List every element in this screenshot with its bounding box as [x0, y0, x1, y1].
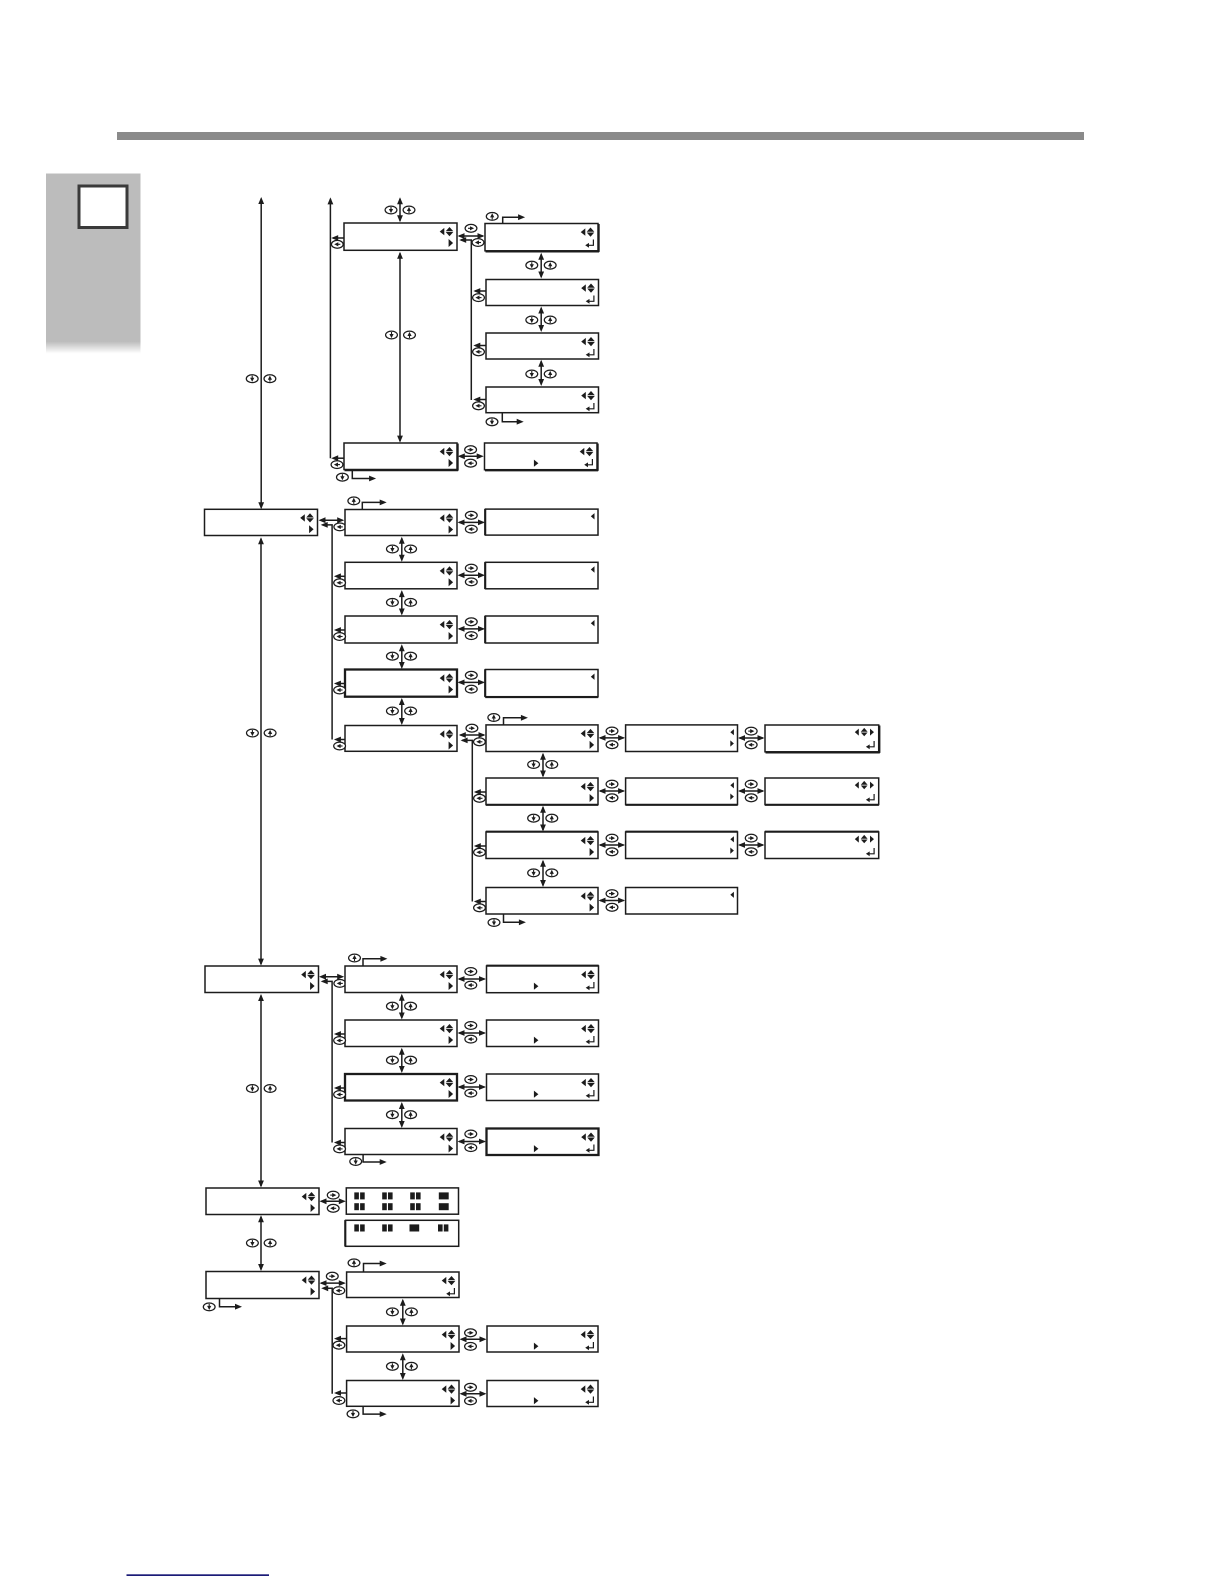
- button left: [465, 1343, 477, 1351]
- button left: [334, 523, 346, 531]
- wire scroll arrow H2C-H2D: [399, 1102, 405, 1128]
- screen E3-1: [486, 725, 598, 752]
- button down: [387, 1362, 399, 1370]
- button left: [334, 1145, 346, 1153]
- screen H2C: [345, 1074, 457, 1101]
- wire back arrow from E3-2: [474, 789, 486, 795]
- screen E3-3: [486, 832, 598, 859]
- screen R2: [347, 1326, 459, 1352]
- wire arrow between H2D and I3D: [458, 1139, 487, 1145]
- wire arrow between F4-1 and G5-1: [738, 735, 765, 741]
- button up: [404, 331, 416, 339]
- button down: [387, 652, 399, 660]
- wire arrow between C2E and E3-1: [459, 732, 486, 738]
- button right: [606, 727, 618, 735]
- screen I3C: [487, 1074, 599, 1101]
- button down: [528, 814, 540, 822]
- screen I3D: [487, 1129, 599, 1156]
- wire enter arrow above H2A: [363, 956, 387, 966]
- wire back arrow from R2: [334, 1336, 347, 1342]
- button down: [387, 1056, 399, 1064]
- wire main menu vertical scroll arrow: [258, 197, 264, 509]
- wire back arrow from H2C: [334, 1085, 345, 1091]
- button right: [745, 834, 757, 842]
- wire back arrow from B3: [473, 343, 486, 349]
- button up: [546, 814, 558, 822]
- button up: [405, 707, 417, 715]
- screen S2: [487, 1326, 598, 1352]
- button right: [465, 446, 477, 454]
- button down: [203, 1303, 215, 1311]
- screen P1 menu: [206, 1188, 319, 1215]
- button left: [745, 848, 757, 856]
- wire back arrow from C2B: [334, 573, 345, 579]
- button up: [546, 761, 558, 769]
- screen D3D: [485, 669, 598, 697]
- button left: [334, 1037, 346, 1045]
- button down: [387, 707, 399, 715]
- button left: [334, 579, 346, 587]
- screen R3: [347, 1381, 459, 1407]
- screen C2D: [345, 670, 457, 697]
- button left: [472, 239, 484, 247]
- wire back arrow from B2: [473, 288, 486, 294]
- screen C2A: [345, 510, 457, 536]
- wire enter arrow above C2A: [362, 500, 386, 510]
- wire arrow between C2C and D3C: [458, 626, 486, 632]
- wire back arrow from C2C: [334, 627, 345, 633]
- wire back arrow from screen A1: [331, 235, 344, 241]
- screen D3A: [485, 509, 598, 535]
- wire exit arrow below B4: [502, 413, 523, 425]
- button right: [465, 1383, 477, 1391]
- screen E3-4: [486, 888, 598, 915]
- wire arrow between H2C and I3C: [458, 1084, 487, 1090]
- screen B4: [486, 387, 599, 413]
- wire scroll arrow B1-B2: [538, 253, 544, 279]
- screen G5-2: [765, 778, 879, 805]
- wire back arrow from B4: [473, 397, 486, 403]
- button right: [466, 724, 478, 732]
- wire long scroll arrow A1-A2: [397, 252, 403, 443]
- button up: [488, 714, 500, 722]
- screen H2B: [345, 1020, 457, 1047]
- button left: [606, 741, 618, 749]
- button right: [745, 780, 757, 788]
- button up: [403, 206, 415, 214]
- wire scroll arrow C2B-C2C: [399, 590, 405, 615]
- screen I3A: [486, 966, 598, 993]
- wire scroll arrow H2B-H2C: [399, 1048, 405, 1073]
- screen B2: [486, 280, 599, 306]
- wire scroll arrow R2-R3: [400, 1353, 406, 1380]
- button left: [334, 686, 346, 694]
- wire arrow between A2 and B5: [458, 453, 484, 459]
- screen E3-2: [486, 778, 598, 805]
- button right: [606, 834, 618, 842]
- screen C2B: [345, 562, 457, 589]
- button up: [486, 213, 498, 221]
- screen I3B: [487, 1020, 599, 1047]
- wire scroll arrow B3-B4: [538, 360, 544, 386]
- button down: [526, 370, 538, 378]
- button up: [348, 1259, 360, 1267]
- left grey sidebar tab with fade: [46, 174, 141, 342]
- wire back arrow from H2D: [334, 1140, 345, 1146]
- wire exit arrow below A2: [352, 470, 376, 482]
- button up: [264, 375, 276, 383]
- button left: [465, 1035, 477, 1043]
- wire arrow between C2B and D3B: [458, 572, 486, 578]
- screen C2C: [345, 616, 457, 643]
- screen G5-1: [765, 725, 880, 753]
- button left: [474, 794, 486, 802]
- button up: [264, 1085, 276, 1093]
- button left: [465, 632, 477, 640]
- button left: [606, 794, 618, 802]
- button right: [465, 968, 477, 976]
- button right: [465, 618, 477, 626]
- wire menu scroll arrow M2-P1: [258, 994, 264, 1188]
- button left: [473, 294, 485, 302]
- screen B3: [486, 333, 599, 359]
- button left: [334, 1091, 346, 1099]
- screen T1 test pattern: [346, 1188, 458, 1214]
- button right: [606, 890, 618, 898]
- screen A1: [344, 223, 457, 250]
- button down: [386, 331, 398, 339]
- screen D3B: [485, 562, 598, 589]
- button up: [544, 261, 556, 269]
- wire exit arrow below H2D: [363, 1155, 387, 1165]
- wire arrow between C2D and D3D: [458, 680, 486, 686]
- button left: [333, 1341, 345, 1349]
- button right: [465, 1130, 477, 1138]
- button down: [387, 1111, 399, 1119]
- button down: [387, 1308, 399, 1316]
- wire back arrow from E3-4: [474, 899, 486, 905]
- screen B5: [485, 443, 599, 471]
- wire back arrow from C2E: [334, 737, 345, 743]
- wire menu scroll arrow P1-P2: [258, 1215, 264, 1271]
- wire back arrow from H2B: [334, 1031, 345, 1037]
- screen P2 menu: [206, 1272, 319, 1299]
- wire exit arrow below P2: [220, 1299, 243, 1310]
- button right: [465, 671, 477, 679]
- button up: [405, 1002, 417, 1010]
- screen M1 menu: [205, 509, 318, 535]
- wire scroll arrow E3-1/2: [540, 753, 546, 778]
- button right: [326, 1272, 338, 1280]
- button right: [465, 511, 477, 519]
- wire scroll arrow C2A-C2B: [399, 537, 405, 562]
- sidebar chapter square: [79, 186, 127, 228]
- wire arrow between E3-4 and F4-4: [599, 898, 626, 904]
- wire arrow between E3-3 and F4-3: [599, 842, 626, 848]
- wire scroll arrow B2-B3: [538, 307, 544, 333]
- wire scroll arrow E3-3/4: [540, 860, 546, 887]
- screen B1: [485, 224, 599, 252]
- button down: [526, 261, 538, 269]
- button down: [528, 761, 540, 769]
- button left: [465, 981, 477, 989]
- wire arrow between C2A and D3A: [458, 520, 486, 526]
- button left: [333, 1397, 345, 1405]
- button left: [474, 738, 486, 746]
- button left: [745, 741, 757, 749]
- button right: [606, 780, 618, 788]
- button up: [264, 1239, 276, 1247]
- button right: [327, 1191, 339, 1199]
- wire arrow between M1 and C2A: [319, 517, 345, 523]
- wire arrow between R3 and S3: [460, 1391, 487, 1397]
- button up: [348, 497, 360, 505]
- wire menu scroll arrow M1-M2: [258, 537, 264, 965]
- wire exit arrow below E3-4: [504, 914, 526, 925]
- button left: [465, 1144, 477, 1152]
- button down: [350, 1158, 362, 1166]
- wire return path from B2-B4 into A1: [459, 237, 471, 400]
- wire arrow between A1 and B1: [458, 233, 485, 239]
- button left: [465, 1397, 477, 1405]
- wire scroll arrow C2D-C2E: [399, 698, 405, 725]
- button left: [606, 903, 618, 911]
- wire return path from H2 rows into M2: [321, 979, 332, 1143]
- screen S3: [487, 1381, 598, 1407]
- button left: [331, 461, 343, 469]
- wire arrow between P2 and R1: [320, 1280, 346, 1286]
- wire scroll arrow C2C-C2D: [399, 644, 405, 669]
- wire return path from C2 rows into M1: [321, 522, 332, 740]
- button down: [246, 375, 258, 383]
- wire back arrow from R3: [334, 1390, 347, 1396]
- wire return line to top: [328, 197, 334, 458]
- screen A2: [344, 443, 458, 471]
- button down: [347, 1410, 359, 1418]
- button left: [465, 459, 477, 467]
- button right: [465, 224, 477, 232]
- wire return path from E3 rows into C2E: [461, 738, 473, 902]
- wire back arrow from screen A2: [331, 455, 344, 461]
- button left: [606, 848, 618, 856]
- screen H2D: [345, 1129, 457, 1155]
- wire scroll arrow H2A-H2B: [399, 994, 405, 1020]
- screen T2 test pattern: [345, 1220, 459, 1246]
- button up: [544, 316, 556, 324]
- button left: [745, 794, 757, 802]
- button down: [528, 869, 540, 877]
- button left: [465, 1089, 477, 1097]
- button left: [331, 240, 343, 248]
- button down: [488, 919, 500, 927]
- button left: [333, 1287, 345, 1295]
- button left: [474, 848, 486, 856]
- button right: [745, 727, 757, 735]
- button right: [465, 1076, 477, 1084]
- footer rule: [127, 1574, 270, 1576]
- wire arrow between M2 and H2A: [319, 974, 344, 980]
- wire back arrow from E3-3: [474, 843, 486, 849]
- button right: [465, 564, 477, 572]
- button left: [474, 904, 486, 912]
- button down: [387, 599, 399, 607]
- button up: [405, 1111, 417, 1119]
- button left: [473, 402, 485, 410]
- wire arrow between P1 and T1: [320, 1198, 346, 1204]
- button left: [473, 348, 485, 356]
- wire arrow between R2 and S2: [460, 1336, 487, 1342]
- screen F4-3: [625, 832, 737, 859]
- button down: [486, 418, 498, 426]
- button up: [546, 869, 558, 877]
- button down: [385, 206, 397, 214]
- button left: [334, 633, 346, 641]
- screen G5-3: [765, 832, 879, 859]
- wire scroll arrow R1-R2: [400, 1299, 406, 1326]
- button left: [465, 685, 477, 693]
- button down: [247, 1239, 259, 1247]
- wire back arrow from C2D: [334, 681, 345, 687]
- wire enter arrow above screen B1: [503, 214, 525, 223]
- wire exit arrow below R3: [363, 1406, 387, 1417]
- screen R1: [347, 1272, 459, 1298]
- button up: [264, 729, 276, 737]
- button down: [526, 316, 538, 324]
- button left: [334, 980, 346, 988]
- button left: [334, 742, 346, 750]
- button up: [405, 1056, 417, 1064]
- button down: [247, 729, 259, 737]
- screen C2E: [345, 726, 457, 752]
- button up: [406, 1308, 418, 1316]
- wire enter arrow above E3-1: [504, 715, 528, 725]
- button left: [327, 1204, 339, 1212]
- wire arrow between F4-2 and G5-2: [738, 788, 765, 794]
- button up: [405, 599, 417, 607]
- wire scroll arrow above screen A1: [397, 197, 403, 222]
- button up: [406, 1362, 418, 1370]
- button up: [544, 370, 556, 378]
- button down: [247, 1085, 259, 1093]
- top grey rule bar: [117, 132, 1084, 140]
- button down: [387, 1002, 399, 1010]
- button down: [387, 545, 399, 553]
- button left: [465, 578, 477, 586]
- wire arrow between E3-1 and F4-1: [599, 735, 626, 741]
- button left: [465, 525, 477, 533]
- wire arrow between E3-2 and F4-2: [599, 788, 626, 794]
- wire arrow between H2A and I3A: [458, 976, 487, 982]
- button down: [337, 473, 349, 481]
- wire scroll arrow E3-2/3: [540, 806, 546, 832]
- button right: [465, 1329, 477, 1337]
- button right: [465, 1022, 477, 1030]
- button up: [405, 652, 417, 660]
- wire arrow between H2B and I3B: [458, 1030, 487, 1036]
- screen F4-1: [626, 725, 738, 752]
- screen F4-4: [626, 888, 738, 915]
- screen H2A: [345, 966, 457, 993]
- wire arrow between F4-3 and G5-3: [738, 842, 765, 848]
- screen D3C: [485, 616, 598, 643]
- wire enter arrow above R1: [364, 1261, 387, 1272]
- button up: [405, 545, 417, 553]
- screen M2 menu: [205, 966, 319, 993]
- button up: [349, 954, 361, 962]
- wire return path from R2-R3 into P2: [321, 1285, 332, 1393]
- screen F4-2: [625, 778, 737, 805]
